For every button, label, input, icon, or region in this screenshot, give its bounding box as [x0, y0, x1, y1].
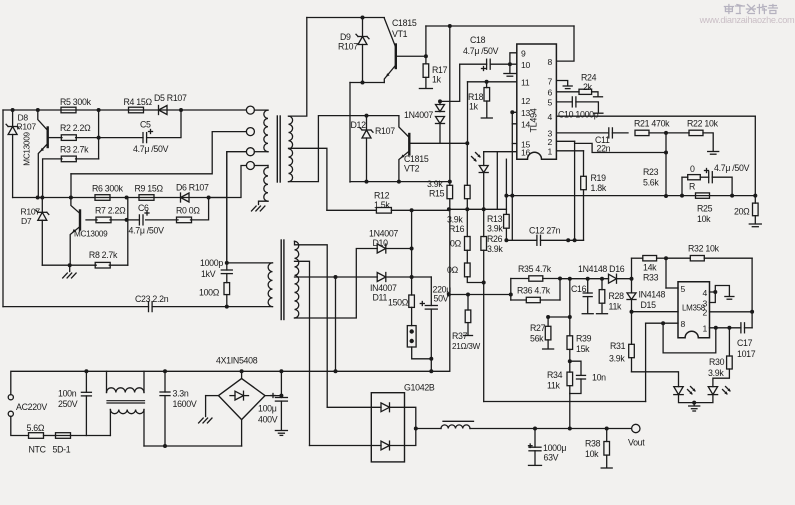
svg-text:21Ω/3W: 21Ω/3W — [452, 342, 481, 351]
svg-text:4: 4 — [548, 112, 553, 122]
diode D11 — [370, 273, 414, 303]
resistor 20ohm — [734, 196, 758, 223]
svg-text:5: 5 — [548, 98, 553, 108]
capacitor C5 — [133, 120, 169, 155]
pin 5 — [681, 284, 686, 294]
svg-text:5D-1: 5D-1 — [53, 445, 71, 455]
wire VT2 base — [409, 141, 469, 145]
wire pin2 row — [632, 311, 753, 313]
transistor Q2 MC13009 — [70, 198, 108, 266]
wire T1 sec tap down — [289, 148, 327, 210]
svg-text:1.5k: 1.5k — [374, 200, 390, 210]
led LED1 — [674, 387, 696, 405]
resistor R28 — [597, 279, 625, 314]
diode D15 — [627, 279, 665, 314]
inductor choke core — [107, 401, 145, 403]
svg-text:8: 8 — [548, 57, 553, 67]
svg-text:11: 11 — [521, 78, 530, 88]
wire pin9 jog — [508, 53, 517, 66]
wire C12 row — [506, 238, 583, 242]
svg-text:R21 470k: R21 470k — [634, 119, 670, 129]
svg-text:D5 R107: D5 R107 — [154, 93, 187, 103]
rectifier G1042B box — [371, 383, 435, 462]
ground at T1 lower winding — [252, 206, 265, 211]
wire R13 column — [505, 159, 507, 214]
wire pin 4 top rail — [557, 116, 756, 196]
capacitor 10n — [570, 361, 606, 393]
wire pin8 link — [646, 323, 678, 401]
svg-text:1.8k: 1.8k — [591, 183, 607, 193]
capacitor 100u 400V — [258, 371, 287, 429]
svg-text:R16: R16 — [449, 224, 465, 234]
resistor R34 — [547, 361, 573, 393]
svg-text:50V: 50V — [434, 294, 449, 304]
capacitor 220u — [412, 277, 452, 371]
resistor R17 — [419, 56, 447, 88]
pin 8 — [681, 319, 686, 329]
resistor R27 — [530, 317, 554, 349]
ground at bridge — [199, 418, 212, 423]
pin 1 — [703, 324, 708, 334]
svg-text:R8 2.7k: R8 2.7k — [89, 250, 118, 260]
pin 1 — [548, 147, 553, 157]
pin 9 — [521, 49, 526, 59]
op-amp U1 TL494 outline — [517, 44, 557, 159]
ground at Q2 emitter — [63, 265, 76, 278]
svg-text:14k: 14k — [643, 263, 657, 273]
svg-text:1k: 1k — [432, 75, 442, 85]
pin 6 — [548, 88, 553, 98]
wire VT2 bottom rail — [350, 180, 452, 184]
wire pins 13-14 bracket — [510, 110, 517, 240]
svg-text:5.6k: 5.6k — [643, 178, 659, 188]
wire pin 11 — [468, 80, 517, 144]
svg-text:R5 300k: R5 300k — [60, 97, 92, 107]
zener diode D9 — [338, 18, 369, 83]
wire T2 sec tap2 to D11 — [295, 275, 378, 373]
wire pin5 link — [666, 258, 678, 288]
pin 2 — [703, 308, 708, 318]
svg-text:IN4007: IN4007 — [370, 283, 397, 293]
svg-text:C6: C6 — [138, 203, 149, 213]
wire pin4 ground — [710, 286, 734, 300]
svg-text:10n: 10n — [592, 373, 606, 383]
inductor choke top — [107, 371, 145, 392]
svg-text:www.dianzaihaozhe.com: www.dianzaihaozhe.com — [699, 15, 795, 25]
svg-text:R0 0Ω: R0 0Ω — [176, 206, 200, 216]
wire bridge left to ground — [206, 396, 219, 417]
capacitor C11 — [595, 128, 628, 154]
resistor R31 — [609, 312, 634, 372]
svg-text:1: 1 — [703, 324, 708, 334]
svg-text:250V: 250V — [58, 399, 78, 409]
resistor R24 — [557, 73, 603, 97]
svg-text:5: 5 — [681, 284, 686, 294]
svg-text:3.9k: 3.9k — [487, 244, 503, 254]
svg-text:C1815: C1815 — [392, 18, 417, 28]
wire y=197.5 rail — [13, 196, 227, 200]
svg-text:C16: C16 — [571, 284, 587, 294]
resistor R2 — [60, 123, 91, 140]
wire mains rail — [86, 369, 449, 373]
svg-text:C18: C18 — [470, 35, 486, 45]
pin 10 — [521, 60, 530, 70]
thermistor 5D-1 — [44, 433, 71, 455]
wire pin 15 — [512, 143, 517, 145]
watermark — [699, 5, 795, 26]
svg-text:R38: R38 — [585, 439, 601, 449]
svg-text:1N4148 D16: 1N4148 D16 — [578, 264, 625, 274]
svg-text:C5: C5 — [140, 120, 151, 130]
wire to terminal 3 — [227, 152, 247, 263]
svg-text:2: 2 — [548, 137, 553, 147]
resistor R4 — [124, 97, 153, 113]
resistor R39 — [567, 317, 592, 363]
wire mid row y=195.6 — [504, 194, 757, 198]
svg-text:R36 4.7k: R36 4.7k — [517, 286, 551, 296]
svg-text:NTC: NTC — [29, 445, 47, 455]
transformer T1 primary upper — [254, 110, 268, 152]
svg-text:R15: R15 — [429, 189, 445, 199]
svg-text:2k: 2k — [583, 82, 593, 92]
wire VT1 base — [396, 26, 428, 58]
resistor R12 — [374, 191, 391, 214]
svg-text:1: 1 — [548, 147, 553, 157]
svg-text:IN4148: IN4148 — [639, 290, 666, 300]
svg-text:150Ω: 150Ω — [388, 298, 409, 308]
resistor R32 — [688, 244, 720, 261]
resistor R0 — [176, 206, 200, 223]
svg-text:2: 2 — [703, 308, 708, 318]
svg-text:R3 2.7k: R3 2.7k — [60, 145, 89, 155]
svg-text:4.7μ /50V: 4.7μ /50V — [129, 226, 165, 236]
pin 8 — [548, 57, 553, 67]
transformer T1 secondary — [289, 116, 293, 182]
svg-text:C23 2.2n: C23 2.2n — [135, 294, 169, 304]
capacitor C18 — [460, 35, 517, 71]
svg-text:3.9k: 3.9k — [609, 354, 625, 364]
pin 14 — [521, 120, 530, 130]
pin 13 — [521, 108, 530, 118]
svg-text:6: 6 — [548, 88, 553, 98]
capacitor 3.3n — [160, 371, 197, 448]
wire R34 bottom to Vout rail — [569, 394, 571, 429]
svg-text:R12: R12 — [374, 191, 390, 201]
svg-text:4: 4 — [703, 288, 708, 298]
resistor R15 — [427, 179, 453, 295]
wire T2 sec tap1 — [295, 261, 310, 445]
ground at LEDs — [689, 403, 700, 411]
svg-text:R6 300k: R6 300k — [92, 184, 124, 194]
wire T2 sec top — [295, 241, 328, 407]
diode D6 — [176, 183, 209, 203]
pin 4 — [548, 112, 553, 122]
wire D16 row — [560, 277, 609, 281]
wire T1 sec bottom to D12 box — [289, 116, 399, 182]
svg-text:9: 9 — [521, 49, 526, 59]
svg-text:R17: R17 — [432, 65, 448, 75]
svg-text:0: 0 — [690, 164, 695, 174]
svg-text:R107: R107 — [375, 126, 395, 136]
capacitor C17 — [737, 323, 756, 359]
diode pair 1N4007 — [404, 64, 460, 143]
wire base to pin8 rail — [426, 24, 574, 28]
svg-text:D15: D15 — [641, 300, 657, 310]
pin 3 — [703, 298, 708, 308]
svg-text:63V: 63V — [544, 453, 559, 463]
svg-text:R28: R28 — [609, 291, 625, 301]
svg-text:3.9k: 3.9k — [487, 224, 503, 234]
ground at 100u — [275, 431, 287, 436]
resistor R35 R36 pair — [511, 264, 562, 303]
wire pin 1 R19 — [557, 151, 584, 177]
svg-text:R25: R25 — [697, 204, 713, 214]
transistor Q1 MC13009 — [23, 110, 48, 198]
svg-text:C10 1000p: C10 1000p — [558, 110, 599, 120]
resistor R25 — [696, 193, 713, 224]
wire to terminal 2 — [71, 132, 246, 198]
svg-text:4X1IN5408: 4X1IN5408 — [216, 356, 258, 366]
zener diode D12 — [351, 114, 396, 182]
wire Vout rail — [416, 427, 632, 431]
svg-text:100μ: 100μ — [258, 404, 277, 414]
resistor R23-0 zero ohm — [682, 164, 700, 196]
terminal AC L — [8, 395, 13, 400]
svg-text:R23: R23 — [643, 167, 659, 177]
svg-text:R33: R33 — [643, 273, 659, 283]
wire R15 column lower — [447, 293, 451, 372]
svg-text:R2 2.2Ω: R2 2.2Ω — [60, 123, 91, 133]
svg-text:R18: R18 — [468, 92, 484, 102]
svg-text:R26: R26 — [487, 234, 503, 244]
wire TL494 pin8 link — [557, 26, 574, 61]
pin 16 — [521, 148, 530, 158]
wire R31 to LED1 — [632, 372, 679, 387]
svg-text:R13: R13 — [487, 214, 503, 224]
wire connector bottom — [412, 347, 434, 361]
svg-text:3.9k: 3.9k — [708, 368, 724, 378]
pin 11 — [521, 78, 530, 88]
opto photodiode — [472, 153, 489, 210]
ground at 20ohm — [749, 224, 761, 227]
svg-text:R19: R19 — [591, 173, 607, 183]
svg-text:VT2: VT2 — [404, 164, 420, 174]
resistor R33 14k — [643, 256, 659, 283]
svg-text:R4 15Ω: R4 15Ω — [124, 97, 153, 107]
svg-text:4.7μ /50V: 4.7μ /50V — [133, 144, 169, 154]
wire pin 7 — [557, 81, 573, 89]
diode G1042B lower — [310, 427, 418, 450]
capacitor C12 — [529, 226, 561, 246]
wire R7 row — [86, 198, 209, 222]
svg-text:1N4007: 1N4007 — [404, 110, 433, 120]
svg-text:12: 12 — [521, 96, 530, 106]
wire R32 right column — [750, 258, 754, 328]
pin 5 — [548, 98, 553, 108]
svg-text:16: 16 — [521, 148, 530, 158]
pin 15 — [521, 139, 530, 149]
svg-text:1000μ: 1000μ — [543, 443, 566, 453]
node terminal 2 — [246, 128, 254, 136]
resistor R7 — [95, 206, 126, 223]
svg-text:1017: 1017 — [737, 349, 756, 359]
svg-text:R107: R107 — [21, 207, 41, 217]
svg-text:VT1: VT1 — [392, 29, 408, 39]
wire pin 3 C11 row — [557, 132, 609, 134]
svg-text:3.3n: 3.3n — [173, 389, 189, 399]
transformer T2 core — [281, 240, 284, 320]
resistor NTC 5.6ohm — [27, 423, 47, 455]
node terminal 4 — [246, 162, 254, 170]
svg-text:R: R — [689, 182, 695, 192]
wire top-left rail y=110 — [3, 108, 246, 112]
svg-text:MC13009: MC13009 — [74, 230, 108, 239]
wire R39 column top — [546, 279, 572, 319]
capacitor 1000u 63V — [529, 429, 567, 466]
svg-text:R35 4.7k: R35 4.7k — [518, 264, 552, 274]
wire T1 sec top to VT1 rail — [289, 18, 307, 117]
wire T2 sec bottom to D10 — [295, 249, 378, 319]
svg-text:R22 10k: R22 10k — [687, 119, 719, 129]
svg-text:R7 2.2Ω: R7 2.2Ω — [95, 206, 126, 216]
svg-text:R31: R31 — [610, 341, 626, 351]
svg-text:8: 8 — [681, 319, 686, 329]
bridge rectifier 4X1IN5408 — [216, 356, 265, 420]
svg-text:20Ω: 20Ω — [734, 207, 750, 217]
ground at pins 9-10 — [504, 64, 516, 76]
resistor R8 — [89, 250, 118, 268]
svg-text:4.7μ /50V: 4.7μ /50V — [463, 46, 499, 56]
resistor 0ohm second — [447, 263, 486, 285]
svg-text:R24: R24 — [581, 73, 597, 83]
transformer T1 core — [277, 116, 280, 182]
capacitor 100n — [58, 369, 91, 435]
svg-text:1000p: 1000p — [200, 258, 223, 268]
terminal AC N — [8, 411, 13, 416]
svg-text:D6 R107: D6 R107 — [176, 183, 209, 193]
svg-text:1k: 1k — [469, 102, 479, 112]
svg-text:5.6Ω: 5.6Ω — [27, 423, 45, 433]
svg-text:R39: R39 — [576, 334, 592, 344]
resistor R30 — [708, 328, 732, 387]
wire R3 left leg — [43, 159, 62, 198]
svg-text:7: 7 — [548, 76, 553, 86]
wire pin3 link — [710, 292, 716, 303]
pin 3 — [548, 129, 553, 139]
transistor VT1 C1815 — [384, 18, 417, 83]
svg-text:3.9k: 3.9k — [447, 215, 463, 225]
pin 7 — [548, 76, 553, 86]
svg-text:400V: 400V — [258, 415, 278, 425]
svg-text:15k: 15k — [576, 344, 590, 354]
svg-text:1N4007: 1N4007 — [369, 229, 398, 239]
wire opto column to LM358 pin8 return — [484, 283, 646, 402]
svg-text:C1815: C1815 — [404, 154, 429, 164]
svg-text:100n: 100n — [58, 389, 77, 399]
snubber capacitor 1000p — [200, 152, 232, 279]
resistor R19 — [581, 173, 607, 240]
svg-text:11k: 11k — [609, 302, 623, 312]
wire R32 row — [632, 256, 753, 279]
wire R12 row — [327, 208, 449, 212]
svg-text:MC13009: MC13009 — [23, 132, 32, 166]
svg-text:R9 15Ω: R9 15Ω — [135, 184, 164, 194]
svg-text:10: 10 — [521, 60, 530, 70]
svg-text:R27: R27 — [530, 323, 546, 333]
connector 2pin — [407, 326, 416, 347]
svg-text:G1042B: G1042B — [404, 383, 435, 393]
transformer T1 primary lower — [254, 166, 268, 205]
wire R8 row — [42, 198, 128, 268]
svg-text:100Ω: 100Ω — [199, 288, 220, 298]
svg-text:1kV: 1kV — [201, 269, 216, 279]
svg-text:D11: D11 — [373, 293, 388, 303]
resistor R22 — [666, 119, 719, 155]
svg-text:Vout: Vout — [628, 438, 645, 448]
resistor R26 — [481, 209, 503, 282]
svg-text:14: 14 — [521, 120, 530, 130]
svg-text:R37: R37 — [452, 331, 468, 341]
svg-text:TL494: TL494 — [529, 108, 539, 132]
wire AC top — [11, 371, 87, 412]
wire R23 column — [643, 133, 668, 198]
svg-text:10k: 10k — [697, 214, 711, 224]
wire to terminal 4 — [209, 166, 247, 198]
wire VT1 top rail — [307, 16, 385, 20]
svg-text:3.9k: 3.9k — [427, 179, 443, 189]
wire bridge top — [240, 369, 244, 378]
zener diode D7 — [21, 198, 49, 266]
wire pin1 row — [710, 326, 741, 330]
snubber resistor 100ohm — [199, 274, 230, 307]
resistor R37 — [452, 295, 481, 352]
pin 2 — [548, 137, 553, 147]
svg-text:56k: 56k — [530, 334, 544, 344]
transformer T2 primary — [227, 263, 273, 307]
capacitor 4.7u right — [700, 163, 749, 196]
svg-text:D12: D12 — [351, 120, 367, 130]
wire far-left vertical — [2, 110, 4, 307]
node terminal 1 — [246, 106, 254, 114]
svg-text:0Ω: 0Ω — [447, 265, 459, 275]
led LED2 — [694, 387, 731, 403]
svg-text:4.7μ /50V: 4.7μ /50V — [714, 163, 750, 173]
svg-text:13: 13 — [521, 108, 530, 118]
resistor R5 — [60, 97, 92, 113]
op-amp U2 LM358 outline — [678, 282, 710, 338]
svg-text:0Ω: 0Ω — [450, 239, 462, 249]
wire pin1 feedback — [661, 321, 716, 353]
wire y=294.5 row — [449, 293, 513, 297]
capacitor C16 — [571, 279, 593, 314]
capacitor C23 — [3, 294, 273, 312]
wire D10-D11 column — [411, 210, 413, 295]
svg-text:R32 10k: R32 10k — [688, 244, 720, 254]
transformer T2 secondary — [295, 241, 299, 318]
inductor output — [441, 421, 474, 428]
wire R2 row — [48, 110, 181, 140]
pin 12 — [521, 96, 530, 106]
svg-text:R30: R30 — [709, 357, 725, 367]
zener diode D8 — [6, 110, 36, 198]
diode D5 — [154, 93, 187, 115]
wire y=209 row — [447, 207, 507, 211]
wire pin 16 to opto — [484, 152, 517, 210]
resistor R13 — [487, 214, 509, 242]
svg-text:D7: D7 — [21, 216, 32, 226]
wire pin 2 zigzag — [557, 141, 668, 240]
resistor R6 — [92, 184, 124, 201]
